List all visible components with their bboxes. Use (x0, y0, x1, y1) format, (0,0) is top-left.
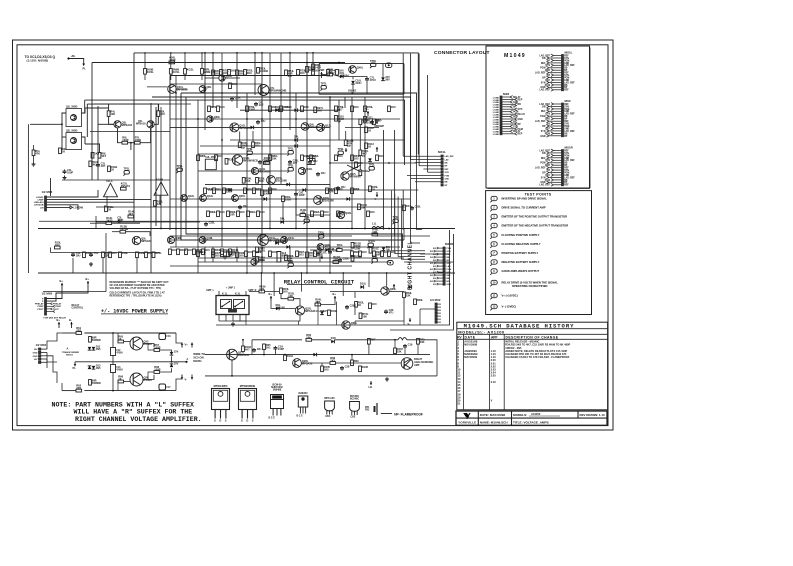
resistor R4L collector (107, 111, 110, 117)
svg-text:1K0: 1K0 (240, 210, 245, 214)
parts row y150-170 (197, 155, 200, 161)
svg-text:EBC: EBC (326, 416, 331, 418)
sheet outer border (13, 40, 614, 430)
wire lower bundle to MX1R (402, 190, 404, 230)
svg-text:2R2: 2R2 (76, 386, 81, 390)
parts row y185-200 (204, 188, 207, 194)
svg-text:MODEL(S):- AX1200: MODEL(S):- AX1200 (458, 329, 505, 334)
row of caps and resistors mid-left (72, 253, 74, 255)
wire drops below rail 273 (260, 273, 262, 292)
test point TP2L (288, 168, 293, 172)
svg-text:S: S (252, 419, 254, 423)
svg-text:D10L: D10L (360, 282, 367, 286)
svg-text:10U: 10U (341, 185, 346, 189)
power supply bottom rail (62, 390, 76, 392)
wire row 110 (240, 109, 275, 111)
wire X crossing upper (347, 165, 361, 172)
svg-text:EMITTER OF THE POSITIVE OUTPUT: EMITTER OF THE POSITIVE OUTPUT TRANSISTO… (502, 215, 568, 219)
transistor Q8L (199, 86, 206, 93)
diff pair input wires (98, 123, 114, 125)
svg-text:100R: 100R (154, 346, 160, 350)
power supply mid rail (75, 361, 187, 363)
svg-text:R79L: R79L (367, 105, 374, 109)
svg-text:10U: 10U (228, 254, 233, 258)
svg-text:B+: B+ (57, 318, 61, 322)
resistor R51C (369, 248, 372, 254)
arrow B+ 2 (334, 296, 336, 301)
wire bundle to MX1R (392, 191, 426, 251)
lower half extra horizontals (170, 235, 352, 237)
svg-text:RIGHT CHANNEL VOLTAGE AMPLIFIE: RIGHT CHANNEL VOLTAGE AMPLIFIER. (75, 416, 202, 423)
connector MX2 pin block (562, 103, 564, 105)
svg-text:Q40L: Q40L (357, 66, 364, 70)
resistor row y70 extras (220, 70, 223, 76)
svg-text:G: G (214, 419, 216, 423)
svg-text:C10L: C10L (415, 205, 422, 209)
svg-text:500MW: 500MW (92, 338, 101, 342)
svg-text:4K7: 4K7 (128, 212, 133, 216)
svg-text:MPSW06: MPSW06 (177, 88, 189, 92)
wire left rail short (50, 178, 52, 196)
svg-text:Q33L: Q33L (345, 211, 352, 215)
wire bottom rail 2 (205, 375, 437, 377)
svg-text:GND: GND (447, 284, 452, 286)
svg-text:GND: GND (540, 136, 545, 138)
svg-text:LIN: LIN (40, 207, 44, 209)
database history table frame (457, 322, 608, 410)
wire mid rail 2 (38, 272, 455, 274)
test point TP5L2 (372, 259, 377, 263)
svg-text:1K0: 1K0 (379, 154, 384, 158)
svg-text:1: 1 (493, 197, 495, 201)
diff pair Q3L (114, 121, 121, 128)
svg-text:R89L: R89L (210, 210, 217, 214)
parts row y105-115 (208, 106, 211, 112)
svg-text:1K0: 1K0 (218, 154, 223, 158)
svg-text:MTW20N50E: MTW20N50E (240, 384, 256, 388)
transistor Q29 right channel (401, 358, 413, 370)
svg-text:1K: 1K (358, 303, 361, 307)
resistor R31L (252, 142, 255, 148)
svg-text:1N5: 1N5 (96, 347, 101, 351)
IC U2L (205, 159, 216, 170)
wires row 140 (239, 131, 241, 142)
diode D18L (331, 340, 334, 344)
sheet inner border (17, 45, 608, 426)
wires top right cluster (322, 74, 328, 76)
svg-text:R77L: R77L (283, 105, 290, 109)
svg-text:C5L: C5L (94, 251, 99, 255)
test point TP1L input (124, 171, 129, 175)
svg-text:OPERATING ON RECTIFIED: OPERATING ON RECTIFIED (512, 284, 548, 288)
wires diff pair (108, 104, 110, 111)
transistor Q13L big (232, 155, 242, 165)
svg-text:NEGATIVE BATTERY SUPPLY: NEGATIVE BATTERY SUPPLY (502, 260, 540, 264)
svg-text:MX1L: MX1L (565, 50, 573, 54)
diode D6L (280, 220, 283, 224)
svg-text:1K0: 1K0 (315, 69, 320, 73)
resistor R14L (128, 215, 134, 218)
svg-text:100R: 100R (122, 138, 128, 142)
svg-text:100U: 100U (355, 81, 361, 85)
supply arrows lower left (61, 283, 63, 289)
wire row 157 (198, 153, 288, 155)
svg-text:C23L: C23L (375, 119, 382, 123)
svg-text:SYN: SYN (445, 172, 450, 174)
svg-text:2W: 2W (288, 74, 292, 78)
op-amp U1LB (154, 182, 168, 195)
svg-text:MPSW56: MPSW56 (350, 175, 362, 179)
resistor R59L (403, 292, 406, 298)
svg-text:1K0: 1K0 (255, 143, 260, 147)
caps sprinkled (231, 97, 233, 99)
svg-text:SIG: SIG (430, 269, 434, 271)
svg-text:CONNECTOR LAYOUT: CONNECTOR LAYOUT (434, 50, 490, 56)
svg-text:R88L: R88L (354, 187, 361, 191)
arrow B+ relay (270, 296, 272, 301)
test point TP5 icon (491, 233, 497, 237)
svg-text:10K: 10K (288, 294, 293, 298)
svg-text:Q18L: Q18L (207, 236, 214, 240)
svg-text:GND: GND (445, 179, 450, 181)
svg-text:3K3: 3K3 (299, 252, 304, 256)
svg-text:47U: 47U (389, 311, 394, 315)
wire nested rail A (170, 75, 330, 77)
svg-text:1K0: 1K0 (231, 69, 236, 73)
diode D9L (276, 307, 279, 311)
wire rail151 extension (150, 230, 152, 273)
svg-text:R21B: R21B (180, 248, 187, 252)
parts row y210-222 (207, 211, 210, 217)
capacitor C30L (385, 310, 387, 312)
left margin parts (32, 150, 35, 156)
resistor R21L (212, 70, 215, 76)
transistors extra (207, 116, 213, 122)
svg-text:R104: R104 (287, 354, 294, 358)
bridge diodes D13 D14 (88, 366, 92, 369)
svg-text:LAD_REF: LAD_REF (445, 155, 455, 158)
svg-text:TRANSFORMER: TRANSFORMER (62, 351, 79, 354)
svg-text:TP1L: TP1L (288, 147, 295, 151)
svg-text:LGND: LGND (493, 134, 500, 136)
resistor R41L (282, 196, 285, 202)
resistor R67L (368, 339, 371, 345)
svg-text:VOLXND OZ BA.. (T:AT OUTSIDE: VOLXND OZ BA.. (T:AT OUTSIDE TP1 : TP1) (110, 287, 162, 290)
wire top bus (134, 53, 418, 155)
resistor R44L (403, 205, 406, 211)
svg-text:SIG: SIG (433, 278, 437, 280)
svg-text:MJE340: MJE340 (299, 392, 309, 395)
svg-text:GND: GND (33, 356, 38, 358)
svg-text:1K: 1K (368, 128, 371, 132)
svg-text:MTW14N50: MTW14N50 (214, 384, 228, 388)
resistor R43L (372, 233, 378, 236)
emitter resistors R6L R7L (122, 141, 128, 144)
svg-text:10K: 10K (362, 120, 367, 124)
svg-text:10K: 10K (362, 314, 367, 318)
resistor R62 2R2 bottom (76, 389, 82, 392)
svg-text:R67: R67 (371, 337, 376, 341)
svg-text:SIG: SIG (433, 266, 437, 268)
wire MX1L feed horizontals (403, 155, 441, 157)
svg-text:5: 5 (493, 233, 495, 237)
svg-text:AMP: AMP (414, 364, 420, 367)
svg-text:MX6: MX6 (503, 92, 510, 96)
svg-text:15V: 15V (174, 350, 179, 354)
svg-text:47P: 47P (293, 161, 298, 165)
test point TP11 icon (491, 293, 497, 297)
resistor R50L (306, 252, 309, 258)
svg-text:1K0: 1K0 (259, 287, 264, 291)
wires bottom middle (252, 339, 302, 341)
svg-text:Q12L: Q12L (325, 123, 332, 127)
svg-text:R91L: R91L (250, 210, 257, 214)
wire core verticals set 2 (269, 53, 271, 229)
resistor R110L (335, 116, 338, 122)
svg-text:TP7L: TP7L (321, 82, 328, 86)
svg-text:21: 21 (458, 402, 461, 406)
relay area extra (328, 310, 331, 316)
svg-text:SIG: SIG (430, 275, 434, 277)
V+ arrows (181, 343, 183, 348)
svg-text:V- (-15VDC): V- (-15VDC) (502, 305, 517, 309)
svg-text:GND: GND (33, 352, 38, 354)
svg-text:470U: 470U (370, 78, 376, 82)
svg-text:1K0: 1K0 (304, 105, 309, 109)
svg-text:B C E: B C E (269, 417, 276, 420)
svg-text:TP8L: TP8L (370, 59, 377, 63)
svg-text:1K0: 1K0 (94, 152, 99, 156)
wire nested rail E (87, 103, 158, 105)
svg-text:1/2 MX6: 1/2 MX6 (42, 190, 53, 194)
connector 1/2 MX2 right (435, 303, 437, 305)
svg-text:MPSA18: MPSA18 (122, 123, 133, 127)
resistor R26L (312, 64, 315, 70)
arrow VCC mid (367, 111, 369, 116)
svg-text:S: S (225, 419, 227, 423)
resistor R66L (306, 338, 312, 341)
test point TP6 icon (491, 242, 497, 246)
svg-text:REF: REF (447, 275, 452, 277)
svg-text:BP: BP (445, 185, 448, 187)
diode D4L (294, 138, 297, 142)
svg-text:10K: 10K (272, 156, 277, 160)
resistor R22L (236, 70, 239, 76)
diode D21L (325, 248, 328, 252)
svg-text:LAD_REF: LAD_REF (535, 120, 546, 123)
svg-text:TP2L: TP2L (318, 231, 325, 235)
wire relay bottom rail (216, 324, 430, 326)
resistor R54L (315, 303, 321, 306)
svg-text:PGM: PGM (447, 269, 452, 271)
svg-text:LM431SL: LM431SL (238, 353, 250, 357)
transistor Q12L (317, 123, 325, 131)
capacitor C7L (366, 77, 368, 79)
wire right bundle (383, 130, 385, 230)
svg-text:TP10L: TP10L (368, 239, 376, 243)
capacitor C18L (274, 346, 276, 348)
zener D16 15V (170, 352, 174, 355)
svg-text:MPSA06: MPSA06 (259, 170, 270, 174)
svg-text:A: A (67, 347, 69, 351)
inductor L1L (372, 227, 384, 229)
wire bottom rail 1 (205, 354, 430, 356)
svg-text:4700U: 4700U (116, 352, 123, 355)
svg-text:G: G (241, 419, 243, 423)
svg-text:1K0: 1K0 (370, 210, 375, 214)
resistor R42L (300, 214, 306, 217)
svg-text:R98L: R98L (354, 250, 361, 254)
arrow LB (370, 381, 372, 385)
svg-text:10U: 10U (321, 171, 326, 175)
svg-text:REF: REF (445, 169, 450, 171)
capacitor C17 rounded (159, 384, 166, 390)
svg-text:FLOATING POSITIVE SUPPLY: FLOATING POSITIVE SUPPLY (502, 233, 540, 237)
wire top-left entry (69, 59, 84, 64)
svg-text:1K0: 1K0 (304, 154, 309, 158)
svg-text:10R: 10R (230, 212, 235, 216)
test point TP8L flag (371, 63, 376, 67)
svg-text:REF: REF (564, 90, 569, 92)
svg-text:2K0: 2K0 (215, 253, 220, 257)
wire far right vertical 2 (390, 234, 454, 330)
svg-text:Q32L: Q32L (306, 167, 313, 171)
resistor row extension right (169, 249, 172, 255)
svg-text:YORKVILLE: YORKVILLE (458, 420, 476, 424)
resistor R63 top left (89, 337, 92, 343)
svg-text:47R: 47R (329, 189, 334, 193)
svg-text:1K00B: 1K00B (260, 69, 268, 73)
relay pins (218, 315, 220, 322)
svg-text:BC546C: BC546C (350, 398, 359, 401)
resistor R49L (285, 255, 288, 261)
resistor R68L (330, 362, 336, 365)
svg-text:1/2 MX6: 1/2 MX6 (42, 292, 53, 296)
database history column lines (462, 334, 464, 410)
svg-text:BB: BB (542, 153, 546, 155)
resistor R46L (369, 186, 372, 192)
arrow up right mid (376, 147, 378, 152)
bottom extra parts (242, 346, 245, 352)
test point TP8 icon (491, 260, 497, 264)
resistor R51B (351, 243, 354, 249)
svg-text:SIG: SIG (433, 248, 437, 250)
svg-text:V: V (491, 399, 493, 403)
rounded icon J1 (386, 63, 392, 68)
svg-text:R92L: R92L (314, 210, 321, 214)
capacitor C19L (404, 344, 406, 346)
svg-text:R94L: R94L (200, 250, 207, 254)
wires from MX6 lower (47, 289, 63, 299)
svg-text:C22L: C22L (209, 221, 216, 225)
test point TP2L input (177, 168, 182, 172)
svg-text:BB: BB (445, 182, 448, 184)
svg-text:D4L: D4L (294, 135, 299, 139)
svg-text:INVERTING BP AND DRIVE SIGNAL: INVERTING BP AND DRIVE SIGNAL (502, 197, 548, 201)
arrow down VEE (376, 192, 378, 197)
resistor R12L (154, 201, 157, 207)
svg-text:RV: RV (457, 335, 462, 339)
svg-text:D: D (246, 419, 248, 423)
svg-text:BP: BP (445, 166, 448, 168)
resistor R64 bottom left (89, 380, 92, 386)
svg-text:R106: R106 (362, 365, 369, 369)
svg-text:4: 4 (493, 224, 495, 228)
svg-text:15V: 15V (174, 362, 179, 366)
svg-text:LAD: LAD (447, 265, 452, 268)
svg-text:MX2: MX2 (565, 99, 572, 103)
svg-text:12: 12 (493, 305, 496, 309)
svg-text:PROT: PROT (37, 309, 44, 311)
svg-text:1K0: 1K0 (55, 243, 60, 247)
transistor Q43L (200, 195, 207, 202)
svg-text:LRELAY4: LRELAY4 (34, 201, 45, 204)
resistor R55L (355, 302, 358, 308)
resistor R47L (212, 252, 215, 258)
svg-text:16V: 16V (34, 359, 38, 361)
svg-text:DESCRIPTION OF CHANGE: DESCRIPTION OF CHANGE (506, 335, 559, 339)
wire corner x92 down (91, 63, 93, 181)
junctions bottom (242, 339, 244, 341)
svg-text:1K5: 1K5 (330, 359, 335, 363)
resistor R68 100R bottom (154, 371, 160, 374)
svg-text:WILL HAVE A "R" SUFFEX FOR THE: WILL HAVE A "R" SUFFEX FOR THE (74, 409, 193, 416)
relay coil bar (229, 310, 237, 313)
transistor Q7L (258, 85, 269, 96)
resistor R15L (55, 246, 61, 249)
svg-text:1K: 1K (118, 377, 121, 381)
svg-text:SYN: SYN (447, 272, 452, 274)
resistor R67 100R top (154, 349, 160, 352)
test point TP2 icon (491, 205, 497, 209)
svg-text:Q43L: Q43L (207, 194, 214, 198)
svg-text:1K0: 1K0 (339, 69, 344, 73)
wire row 180 (205, 183, 330, 185)
svg-text:10U: 10U (261, 119, 266, 123)
svg-text:POSITIVE BATTERY SUPPLY: POSITIVE BATTERY SUPPLY (502, 251, 539, 255)
svg-text:1K0: 1K0 (272, 187, 277, 191)
transistor Q18L (199, 237, 206, 244)
svg-text:PRELAY: PRELAY (35, 303, 44, 306)
wire verticals top cluster (204, 53, 206, 130)
svg-text:10K: 10K (420, 340, 425, 344)
wire nested rail B (181, 93, 417, 155)
svg-text:CBE: CBE (351, 417, 356, 419)
svg-text:2K2: 2K2 (330, 71, 335, 75)
svg-text:3: 3 (493, 215, 495, 219)
regulator Q26 D45H8 (130, 373, 143, 386)
wire nested rail D (85, 100, 405, 165)
svg-text:C16: C16 (166, 336, 171, 338)
svg-text:R33L: R33L (228, 157, 235, 161)
fan stubs MX6 lower (47, 303, 51, 305)
svg-text:EMITTER OF THE NEGATIVE OUTPUT: EMITTER OF THE NEGATIVE OUTPUT TRANSISTO… (502, 224, 569, 228)
wires from MX2 to transformer (47, 333, 62, 349)
svg-text:C20L: C20L (235, 96, 242, 100)
wires caps to rails (112, 333, 114, 348)
wire row 180 (62, 179, 170, 181)
svg-text:47P: 47P (101, 164, 106, 168)
transistor Q6L wires (106, 196, 108, 205)
diode D7L (275, 241, 278, 245)
connector 1/2 MX2 left (39, 348, 41, 350)
transistor Q38L (167, 236, 174, 243)
svg-text:1K 1W: 1K 1W (120, 227, 128, 231)
svg-text:SIG: SIG (433, 272, 437, 274)
wire mid rail 1 (38, 228, 455, 230)
resistor R70L (417, 339, 420, 345)
svg-text:100R: 100R (154, 368, 160, 372)
